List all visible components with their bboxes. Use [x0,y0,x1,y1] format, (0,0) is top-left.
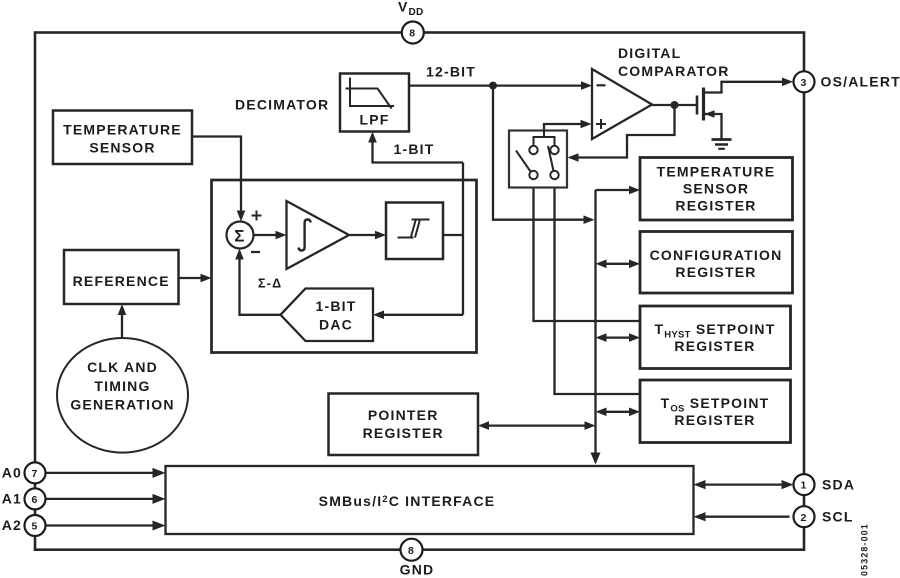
arrowhead pointer right into bus [585,421,596,430]
wire mosfet drain to os/alert [704,82,790,93]
minus label at sigma [251,251,260,253]
switch internal wiring [534,124,555,146]
arrowhead bus-config left [596,260,607,269]
svg-text:6: 6 [31,494,38,506]
wire bus to temperature sensor register [596,189,637,191]
wire bus to tos register [600,411,637,413]
arrowhead bus into temperature sensor register [629,186,640,195]
arrowhead scl into interface [694,512,706,521]
thyst setpoint register [640,306,791,369]
svg-text:Σ-Δ: Σ-Δ [258,277,282,291]
svg-text:REGISTER: REGISTER [675,264,756,280]
wire reference to sigma-delta block [179,277,209,279]
svg-text:DIGITAL: DIGITAL [618,45,681,61]
svg-text:Σ: Σ [234,227,245,246]
wire dac output to sigma minus input [240,252,281,315]
wire bus to thyst register [600,336,637,338]
pin 6 A1 [25,488,46,509]
arrowhead 1-bit into LPF [368,132,377,143]
svg-text:GND: GND [400,562,435,578]
clk and timing generation circle [57,338,188,453]
svg-text:DECIMATOR: DECIMATOR [235,97,329,113]
temperature sensor block [53,111,192,165]
wire right switch to tos register [555,179,641,394]
svg-text:REGISTER: REGISTER [674,412,755,428]
hysteresis icon [398,220,430,238]
wire 12-bit down to register bus [493,86,591,220]
quantizer comparator block [386,203,443,260]
switch S1 lever [516,151,531,172]
wire interface to SDA [698,483,790,485]
sigma-delta modulator block [212,180,477,353]
svg-text:REGISTER: REGISTER [363,425,444,441]
wire mosfet source to ground [705,114,722,139]
svg-text:1: 1 [800,480,807,492]
wire A0 to interface [46,472,162,474]
pin 8 VDD [402,22,424,44]
svg-text:TEMPERATURE: TEMPERATURE [63,122,182,138]
pin 8 GND [401,539,423,561]
tos setpoint register [640,380,791,443]
arrowhead feedback into dac [373,311,384,320]
arrowhead sda right into pin [782,480,794,489]
wire sigma to integrator [254,234,284,236]
svg-text:7: 7 [31,468,38,480]
pin 3 OS/ALERT [794,71,815,92]
ground symbol [712,140,732,149]
wire 1-bit to LPF [373,135,464,163]
mosfet Q1 gate [696,96,699,115]
wire comparator output to mosfet gate [651,104,697,106]
wire feedback to 1-bit dac [377,314,464,316]
arrowhead bus-thyst left [596,333,607,342]
junction dot comparator output [671,101,679,109]
wire SCL to interface [698,516,790,518]
svg-text:REGISTER: REGISTER [674,338,755,354]
mosfet Q1 channel [702,88,705,121]
arrowhead A2 into interface [153,521,166,531]
svg-text:8: 8 [409,28,416,40]
arrowhead A1 into interface [153,494,166,504]
reference block [64,250,179,304]
arrowhead sigma into integrator [276,231,287,240]
chip boundary [35,33,804,550]
switch contacts [529,146,558,179]
svg-text:CLK AND: CLK AND [87,359,158,375]
wire switch common to comparator plus input [534,137,555,146]
wire A2 to interface [46,524,162,526]
svg-text:TIMING: TIMING [94,378,150,394]
temperature sensor register [640,158,793,221]
svg-text:A0: A0 [2,465,22,481]
digital comparator triangle [592,69,652,139]
wire clk circle to reference [121,307,123,338]
svg-text:DAC: DAC [319,317,353,333]
wire bus to configuration register [600,263,637,265]
wire register bus vertical [594,190,596,458]
wire pointer register to bus [482,424,592,426]
arrowhead integrator into quantizer [375,231,386,240]
arrowhead bus into smbus interface [591,453,601,465]
svg-text:SMBus/I2C INTERFACE: SMBus/I2C INTERFACE [319,493,496,509]
wire left switch to thyst register [534,179,641,321]
arrowhead sda left [694,480,706,489]
summing node sigma [227,222,254,249]
svg-text:REFERENCE: REFERENCE [73,273,170,289]
arrowhead bus-tos right [629,408,640,417]
decimator LPF block [340,74,409,132]
svg-text:12-BIT: 12-BIT [426,64,476,80]
svg-text:SCL: SCL [822,508,854,524]
pin 2 SCL [794,506,815,527]
svg-text:SDA: SDA [822,476,855,492]
svg-text:COMPARATOR: COMPARATOR [618,63,730,79]
arrowhead bus-config right [629,260,640,269]
svg-text:1-BIT: 1-BIT [316,298,357,314]
wire comparator output to switch box [571,105,675,158]
svg-text:1-BIT: 1-BIT [394,141,435,157]
svg-text:SENSOR: SENSOR [89,140,155,156]
svg-text:A2: A2 [2,517,22,533]
svg-text:SENSOR: SENSOR [683,181,749,197]
arrowhead 12-bit into bus [584,215,595,224]
svg-text:CONFIGURATION: CONFIGURATION [650,247,783,263]
configuration register [640,232,793,294]
arrowhead A0 into interface [153,468,166,478]
pin 5 A2 [25,515,46,536]
switch S2 lever [548,146,554,171]
1-bit dac block [281,289,374,342]
arrowhead mosfet source [705,110,715,118]
wire integrator to quantizer [349,234,383,236]
arrowhead switch into comparator plus [581,120,592,129]
arrowhead pointer left [478,421,489,430]
arrowhead clk into reference [118,304,127,315]
junction dot 12-bit [489,82,497,90]
pin 7 A0 [25,462,46,483]
arrowhead 12-bit into comparator minus [581,81,592,90]
arrowhead bus-thyst right [629,333,640,342]
svg-text:POINTER: POINTER [368,407,439,423]
svg-text:REGISTER: REGISTER [675,198,756,214]
svg-text:LPF: LPF [359,112,389,128]
arrowhead reference into sigma-delta block [201,274,212,283]
integrator U1 [287,201,350,269]
LPF response icon [346,78,395,109]
pin 1 SDA [794,474,815,495]
svg-text:3: 3 [800,77,807,89]
pointer register [329,394,479,456]
svg-text:8: 8 [408,545,415,557]
arrowhead comparator feedback into switch box [568,153,579,162]
arrowhead dac into sigma minus input [235,249,244,260]
comparator minus input label [597,84,606,86]
svg-text:OS/ALERT: OS/ALERT [821,74,900,90]
comparator plus input label [596,119,606,129]
svg-text:TEMPERATURE: TEMPERATURE [657,164,776,180]
arrowhead mosfet drain into os/alert pin [782,78,793,87]
svg-text:A1: A1 [2,491,22,507]
arrowhead into sigma plus input [237,211,246,222]
plus label at sigma [252,211,262,221]
svg-text:5: 5 [31,521,38,533]
wire A1 to interface [46,498,162,500]
svg-text:GENERATION: GENERATION [70,397,174,413]
wire temperature sensor to sigma node [192,137,241,219]
switch block [509,131,567,188]
smbus i2c interface block [166,466,694,534]
svg-text:2: 2 [800,512,807,524]
wire 1-bit feedback vertical [462,163,464,315]
svg-text:05328-001: 05328-001 [860,523,870,576]
wire LPF to digital comparator 12-bit [409,84,589,86]
wire quantizer output to feedback node [443,234,463,236]
arrowhead bus-tos left [596,408,607,417]
